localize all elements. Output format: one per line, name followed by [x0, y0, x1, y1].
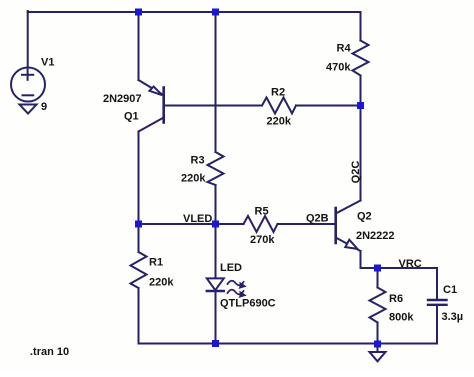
wire Q1 base to R2	[164, 105, 262, 107]
resistor R6	[370, 268, 386, 344]
junction node bottom-middle	[212, 340, 219, 347]
svg-text:220k: 220k	[267, 116, 292, 128]
wire R2 to junction	[296, 105, 361, 107]
ground stem bottom	[377, 344, 379, 352]
svg-text:VRC: VRC	[399, 258, 422, 270]
wire bottom rail	[139, 343, 438, 345]
svg-text:3.3µ: 3.3µ	[442, 311, 464, 323]
wire VLED row	[139, 223, 216, 225]
wire Q1 collector column	[138, 132, 140, 225]
svg-text:Q2C: Q2C	[350, 161, 362, 184]
wire Q2 collector column	[360, 106, 362, 201]
wire VLED node to R5	[216, 223, 244, 225]
junction node VRC	[374, 265, 381, 272]
svg-text:R4: R4	[337, 43, 352, 55]
svg-text:270k: 270k	[250, 234, 275, 246]
wire R4 to junction	[360, 76, 362, 106]
svg-text:Q2B: Q2B	[306, 213, 329, 225]
wire R3 to VLED node	[215, 185, 217, 224]
wire right column upper (R4 top lead)	[360, 12, 362, 41]
wire middle column upper	[215, 12, 217, 152]
resistor R2	[262, 98, 296, 114]
svg-text:800k: 800k	[389, 312, 414, 324]
capacitor C1	[428, 268, 447, 344]
junction node VLED	[212, 221, 219, 228]
transistor Q2	[336, 201, 361, 252]
junction node bottom-ground	[374, 341, 381, 348]
wire V1 top stem	[27, 11, 29, 68]
wire Q2 emitter to VRC junction	[361, 251, 378, 268]
svg-text:Q2: Q2	[357, 211, 372, 223]
voltage source V1	[11, 68, 45, 102]
svg-text:R5: R5	[255, 206, 269, 218]
transistor Q1	[139, 80, 164, 132]
svg-text:R2: R2	[271, 87, 285, 99]
junction node top-middle	[212, 9, 219, 16]
wire R5 to Q2 base	[278, 223, 336, 225]
svg-text:9: 9	[41, 101, 47, 113]
wire left column upper (to Q1 emitter)	[138, 12, 140, 80]
svg-text:LED: LED	[220, 262, 242, 274]
LED light arrows	[228, 281, 246, 298]
svg-text:C1: C1	[443, 284, 457, 296]
LED D1	[207, 224, 224, 344]
junction node R2-R4-Q2C	[357, 102, 364, 109]
resistor R3	[208, 152, 224, 185]
resistor R1	[131, 224, 147, 344]
junction node VLED-left	[135, 221, 142, 228]
ground symbol bottom	[370, 352, 386, 361]
resistor R5	[244, 216, 278, 232]
svg-text:2N2907: 2N2907	[103, 93, 142, 105]
svg-text:220k: 220k	[149, 277, 174, 289]
svg-text:Q1: Q1	[124, 111, 139, 123]
wire top rail	[28, 11, 361, 13]
svg-text:2N2222: 2N2222	[356, 230, 395, 242]
svg-text:.tran 10: .tran 10	[30, 346, 69, 358]
junction node top-left	[135, 9, 142, 16]
svg-text:VLED: VLED	[183, 213, 212, 225]
svg-text:QTLP690C: QTLP690C	[220, 298, 276, 310]
svg-text:V1: V1	[41, 57, 54, 69]
svg-text:470k: 470k	[326, 62, 351, 74]
svg-text:R1: R1	[149, 257, 163, 269]
svg-text:R3: R3	[191, 155, 205, 167]
ground under V1	[20, 105, 37, 114]
resistor R4	[353, 41, 369, 76]
svg-text:220k: 220k	[181, 173, 206, 185]
wire VRC row to C1	[378, 267, 438, 269]
svg-text:R6: R6	[389, 293, 403, 305]
